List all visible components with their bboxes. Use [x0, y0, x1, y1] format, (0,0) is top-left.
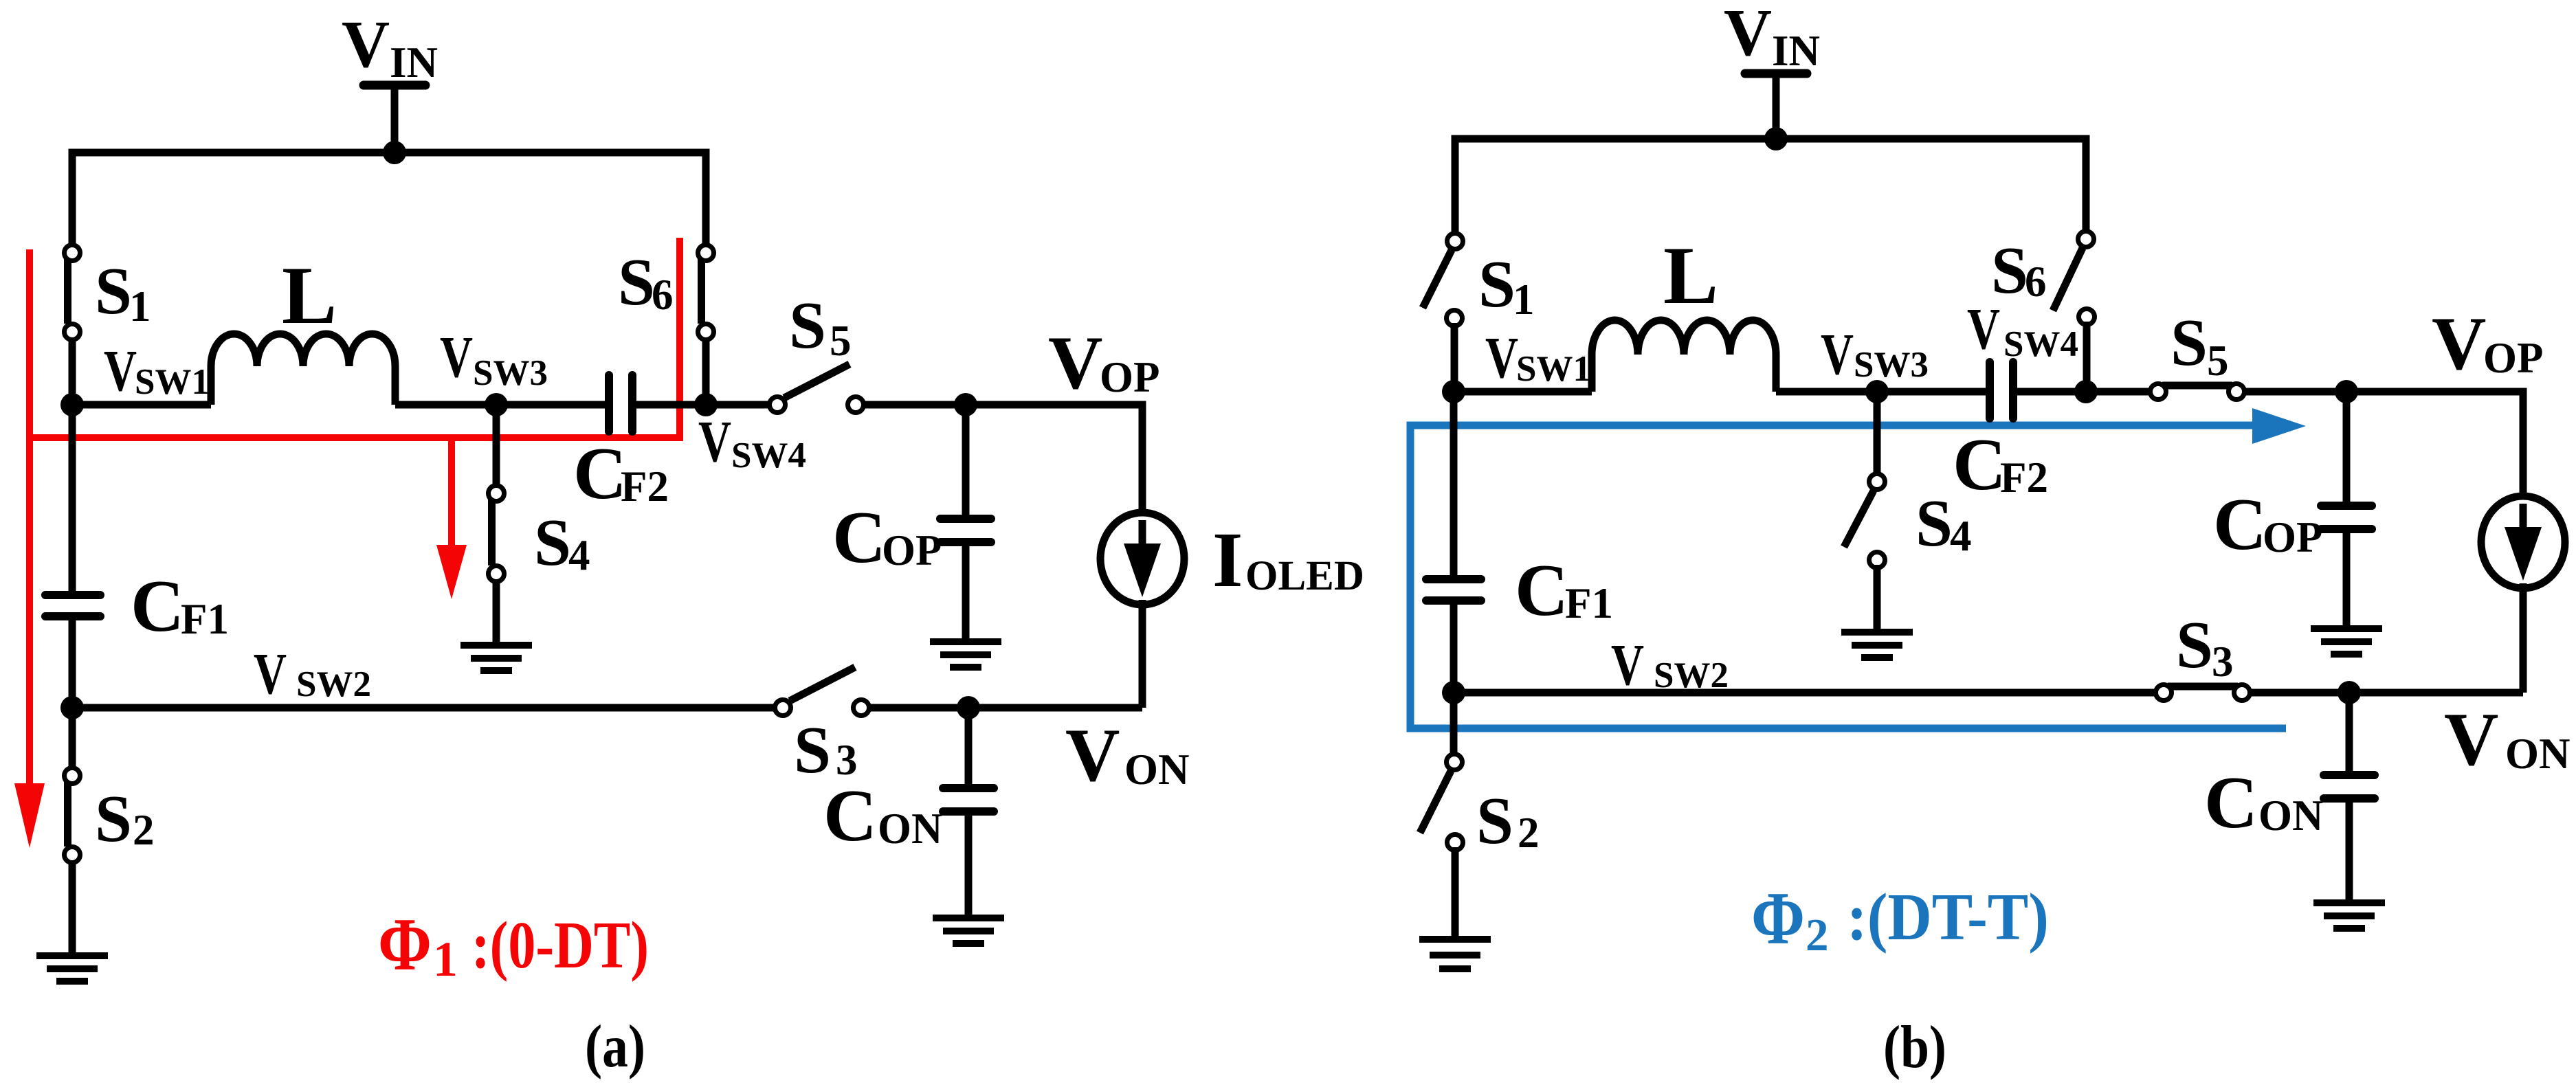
svg-text:1: 1: [1513, 276, 1535, 324]
svg-text:SW2: SW2: [296, 664, 371, 704]
switch S1 (a) closed: contact circles: [65, 245, 80, 261]
wire: VIN stem (a): [391, 85, 399, 153]
svg-text:OP: OP: [1100, 353, 1160, 401]
svg-text:F1: F1: [1565, 579, 1613, 627]
wire: S2 branch vertical (a) closed: [69, 708, 76, 863]
wire: COP branch upper (b): [2343, 392, 2351, 506]
svg-text:ON: ON: [2258, 792, 2324, 840]
wire: VIN stem (b): [1773, 74, 1780, 139]
svg-text:2: 2: [1518, 809, 1540, 857]
switch S5 (b) closed: blade: [2162, 382, 2232, 390]
ground below S4 (a): [460, 642, 532, 649]
wire: VSW4 to S5 (a): [706, 401, 770, 409]
svg-text:V: V: [1048, 321, 1102, 405]
svg-text:L: L: [1663, 229, 1718, 321]
switch S4 (b) open: contacts and blade: [1869, 474, 1885, 490]
blue phase-2 current path loop (b): [1410, 425, 2286, 728]
switch S2 (b) open: contacts and blade: [1450, 693, 1458, 754]
ground below CON (a): [933, 915, 1004, 921]
wire: VSW2 row (a): [72, 704, 775, 712]
red phase-1 current path: left vertical with arrow (a): [26, 249, 33, 787]
svg-text:V: V: [1967, 295, 2000, 361]
node VSW4 (a): [694, 393, 718, 416]
svg-text:V: V: [104, 337, 137, 403]
node VSW3 (a): [485, 393, 508, 416]
switch S6 (a) closed: blade: [698, 259, 705, 324]
node VSW2 (b): [1442, 681, 1465, 704]
node VSW4 (b): [2074, 380, 2098, 403]
capacitor CF2 (b) plates: [1986, 362, 1994, 418]
inductor L (a): [211, 334, 395, 405]
svg-text:C: C: [832, 497, 886, 579]
svg-text:6: 6: [652, 271, 674, 319]
svg-text:F2: F2: [621, 462, 669, 511]
capacitor CON (a) plates: [943, 784, 994, 792]
svg-text:(b): (b): [1883, 1014, 1946, 1081]
svg-text:C: C: [2204, 762, 2258, 844]
switch S6 (a) closed: contact circles: [698, 245, 714, 261]
svg-text:ON: ON: [878, 805, 943, 853]
capacitor CF2 (a) plates: [605, 375, 613, 432]
node COP top (a): [954, 393, 977, 416]
svg-text:1: 1: [433, 932, 458, 987]
wire: CF1 branch upper (a): [69, 405, 76, 595]
wire: IOLED bottom to VON row (a): [1139, 600, 1146, 708]
svg-text:S: S: [534, 506, 571, 579]
svg-text:OP: OP: [2263, 513, 2323, 561]
switch S5 (b) closed: contact circles: [2151, 384, 2166, 400]
current source IOLED (a): [1100, 513, 1184, 605]
node CON top (b): [2338, 681, 2361, 704]
ground below S4 (b): [1841, 629, 1913, 636]
svg-text:Φ: Φ: [1751, 877, 1805, 960]
wire: VSW1 to inductor (a): [72, 401, 211, 409]
wire: CF1 to VSW2 node (a): [69, 616, 76, 708]
red phase-1 branch arrow toward S4 ground (a): [448, 438, 455, 548]
wire: S4 to ground (b): [1874, 565, 1881, 632]
svg-text:C: C: [2213, 484, 2267, 565]
svg-text:S: S: [1478, 247, 1515, 321]
node: VIN junction (a): [383, 141, 406, 164]
node: VIN junction (b): [1764, 127, 1788, 150]
wire: S4 branch top (b): [1874, 392, 1881, 474]
wire: CON branch lower (a): [965, 811, 973, 918]
wire: COP branch upper (a): [962, 405, 970, 519]
wire: CON branch upper (a): [965, 708, 973, 788]
svg-text:I: I: [1212, 516, 1243, 603]
svg-text:4: 4: [568, 531, 590, 579]
svg-text::(0-DT): :(0-DT): [471, 908, 649, 982]
switch S2 (a) closed: blade: [64, 782, 71, 847]
switch S3 (b) closed: blade: [2168, 683, 2238, 691]
svg-text:C: C: [573, 433, 627, 515]
wire: S1 bottom contact to VSW1 (b): [1451, 323, 1458, 392]
wire: S2 to ground (a): [69, 863, 76, 956]
svg-text:S: S: [95, 782, 132, 855]
svg-text:V: V: [1821, 321, 1854, 387]
svg-text:Φ: Φ: [378, 903, 432, 986]
svg-text:V: V: [2444, 697, 2498, 781]
inductor L (b): [1592, 320, 1776, 392]
svg-text:SW4: SW4: [2003, 324, 2078, 364]
wire: COP branch lower (b): [2343, 529, 2351, 629]
svg-text:3: 3: [2212, 638, 2234, 686]
VIN supply bar (a): [364, 81, 425, 90]
wire: VSW2 row (b): [1454, 689, 2523, 697]
svg-text:SW2: SW2: [1654, 655, 1729, 695]
svg-text:S: S: [2170, 306, 2208, 379]
wire: CF2 to VSW4 (b): [2017, 388, 2086, 396]
wire: S6 branch vertical (a) closed: [702, 153, 710, 405]
capacitor COP (b) plates: [2321, 502, 2372, 510]
wire: COP branch lower (a): [962, 542, 970, 642]
svg-text:F2: F2: [2000, 453, 2048, 502]
svg-text:S: S: [2176, 608, 2213, 682]
capacitor CF1 (a) plates: [45, 591, 100, 599]
svg-text:C: C: [131, 565, 184, 647]
switch S6 (b) open: contacts and blade: [2078, 232, 2094, 247]
switch S4 (a) closed: contact circles: [489, 486, 504, 502]
svg-text:ON: ON: [1124, 746, 1190, 794]
svg-text:C: C: [823, 775, 877, 857]
wire: CF1 branch upper (b): [1450, 392, 1458, 579]
switch S3 (b) closed: contact circles: [2156, 685, 2172, 701]
svg-text:V: V: [440, 324, 473, 390]
svg-text:SW3: SW3: [1854, 345, 1929, 385]
capacitor CF1 (b) plates: [1426, 575, 1481, 583]
switch S2 (a) closed: contact circles: [65, 768, 80, 784]
capacitor CON (b) plates: [2324, 771, 2375, 779]
svg-text:OP: OP: [2483, 334, 2544, 382]
svg-text:S: S: [618, 245, 655, 319]
svg-text:4: 4: [1950, 512, 1972, 560]
node VSW1 (a): [60, 393, 84, 416]
wire: S4 branch vertical (a) closed: [493, 405, 500, 645]
switch S5 (a) blade: [784, 364, 850, 398]
svg-text:V: V: [2432, 302, 2486, 385]
svg-text:S: S: [1476, 784, 1513, 858]
svg-text:SW3: SW3: [473, 353, 548, 393]
wire: S1 branch vertical (a) closed: [69, 153, 76, 405]
ground below S2 (b): [1419, 936, 1491, 943]
svg-text:SW1: SW1: [135, 362, 210, 402]
switch S4 (a) closed: blade: [488, 500, 496, 565]
node VSW2 (a): [60, 696, 84, 719]
ground below COP (a): [930, 638, 1001, 645]
svg-text:S: S: [1916, 486, 1953, 560]
svg-text:OLED: OLED: [1245, 553, 1364, 599]
wire: CON branch lower (b): [2346, 798, 2353, 903]
wire: CF2 to VSW4 (a): [636, 401, 706, 409]
svg-text:5: 5: [830, 317, 852, 365]
wire: CON branch upper (b): [2346, 693, 2353, 775]
red phase-1 current path: loop horizontal and right vertical (a): [26, 238, 680, 438]
svg-text:IN: IN: [390, 38, 438, 87]
svg-text:V: V: [698, 408, 731, 474]
svg-text:S: S: [789, 289, 826, 362]
switch S1 (a) closed: blade: [64, 259, 71, 324]
svg-text:V: V: [1065, 713, 1120, 797]
node VSW3 (b): [1865, 380, 1889, 403]
switch S3 (a) open: contacts: [775, 700, 791, 716]
switch S1 (b) open: contacts and blade: [1447, 234, 1463, 249]
VIN supply bar (b): [1745, 69, 1807, 78]
wire: top rail (b): [1455, 139, 2086, 241]
svg-text:2: 2: [1806, 910, 1829, 961]
wire: IOLED bottom to VON row (b): [2520, 583, 2527, 693]
wire: S2 to ground (b): [1452, 847, 1459, 939]
wire: VSW1 to inductor (b): [1454, 388, 1592, 396]
svg-text:C: C: [1953, 424, 2006, 506]
svg-text::(DT-T): :(DT-T): [1847, 880, 2049, 954]
node VSW1 (b): [1442, 380, 1465, 403]
wire: S3 to VON corner (a): [869, 704, 1142, 712]
node COP top (b): [2335, 380, 2358, 403]
node CON top (a): [957, 696, 980, 719]
switch S3 (a) blade: [790, 667, 855, 701]
svg-text:F1: F1: [181, 595, 229, 643]
wire: top rail (a): [72, 153, 706, 253]
ground below CON (b): [2313, 899, 2385, 906]
wire: CF1 to VSW2 node (b): [1450, 601, 1458, 693]
capacitor COP (a) plates: [940, 515, 991, 523]
ground below S2 (a): [36, 952, 108, 959]
current source IOLED (b): [2481, 496, 2565, 588]
svg-text:ON: ON: [2505, 730, 2571, 778]
switch S5 (a) open: contacts: [770, 397, 786, 413]
svg-text:5: 5: [2207, 337, 2229, 385]
svg-text:OP: OP: [882, 526, 942, 574]
svg-text:IN: IN: [1772, 27, 1820, 75]
svg-text:SW1: SW1: [1516, 349, 1591, 389]
wire: inductor to CF2 left plate (b): [1776, 388, 1986, 396]
wire: S5 to VOP corner (a): [864, 405, 1142, 517]
svg-text:1: 1: [129, 282, 151, 330]
svg-text:V: V: [1724, 0, 1772, 69]
svg-text:V: V: [342, 8, 390, 81]
svg-text:SW4: SW4: [731, 436, 806, 475]
svg-text:V: V: [1611, 631, 1644, 697]
wire: inductor to CF2 left plate (a): [395, 401, 605, 409]
svg-text:2: 2: [133, 806, 155, 854]
wire: S6 bottom contact to VSW4 (b): [2083, 322, 2091, 392]
svg-text:C: C: [1515, 550, 1568, 631]
svg-text:L: L: [282, 249, 337, 341]
ground below COP (b): [2311, 625, 2382, 632]
svg-text:(a): (a): [585, 1013, 645, 1080]
wire: VSW4 to VOP corner (b) with closed S5: [2086, 392, 2523, 504]
svg-text:6: 6: [2025, 258, 2047, 306]
svg-text:V: V: [254, 640, 287, 706]
svg-text:S: S: [95, 254, 132, 328]
svg-text:V: V: [1485, 324, 1518, 390]
